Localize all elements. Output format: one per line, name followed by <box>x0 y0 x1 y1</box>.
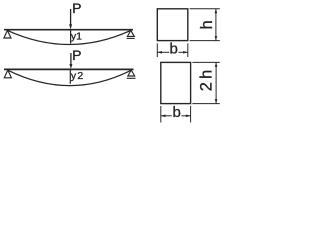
svg-text:y2: y2 <box>71 70 85 82</box>
svg-text:b: b <box>170 40 178 57</box>
svg-text:b: b <box>173 104 181 121</box>
svg-text:P: P <box>72 0 81 16</box>
svg-text:h: h <box>198 20 216 29</box>
svg-text:2h: 2h <box>197 67 215 91</box>
svg-text:P: P <box>72 47 81 63</box>
svg-text:y1: y1 <box>71 31 82 43</box>
